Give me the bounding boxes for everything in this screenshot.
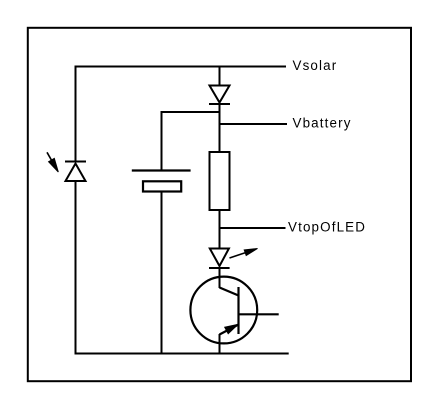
wire emitter to bottom rail — [219, 334, 221, 355]
battery — [132, 171, 191, 192]
light arrow into solar cell — [47, 152, 58, 172]
wire Vsolar node to diode — [219, 66, 221, 87]
photodiode solar cell — [65, 162, 86, 182]
wire diode to resistor (through Vbattery node) — [219, 104, 221, 152]
diode (charging) — [209, 86, 230, 105]
wire left vertical bottom (solar cell to bottom rail) — [75, 181, 77, 355]
wire bottom rail — [75, 353, 289, 355]
wire battery top — [162, 112, 220, 171]
svg-text:Vbattery: Vbattery — [293, 116, 352, 131]
LED — [209, 249, 230, 269]
wire VtopOfLED — [220, 227, 286, 229]
svg-text:Vsolar: Vsolar — [293, 58, 338, 73]
svg-text:VtopOfLED: VtopOfLED — [288, 220, 366, 235]
resistor — [210, 152, 230, 210]
light arrow out of LED — [230, 249, 258, 259]
wire Vsolar — [75, 66, 287, 68]
wire left vertical top (Vsolar to solar cell) — [75, 66, 77, 162]
wire resistor to LED (through VtopOfLED node) — [219, 210, 221, 249]
wire Vbattery — [220, 123, 288, 125]
transistor Q1 (PNP) — [190, 277, 278, 344]
wire LED to transistor collector — [219, 268, 221, 288]
wire battery bottom — [161, 192, 163, 355]
